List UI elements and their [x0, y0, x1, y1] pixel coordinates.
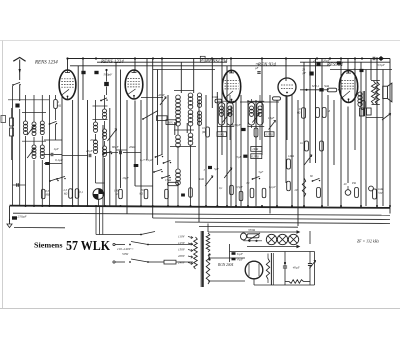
svg-text:110V: 110V: [178, 235, 186, 239]
svg-text:ZF = 132 kHz: ZF = 132 kHz: [357, 240, 379, 244]
svg-text:40µF: 40µF: [293, 266, 300, 270]
svg-text:20kΩ: 20kΩ: [90, 138, 97, 142]
svg-text:0,5MΩ: 0,5MΩ: [252, 156, 259, 159]
svg-text:8/10µF: 8/10µF: [232, 123, 241, 127]
svg-text:200V: 200V: [178, 254, 186, 258]
svg-text:RENS 1234: RENS 1234: [34, 61, 58, 66]
svg-text:µF: µF: [303, 71, 307, 75]
svg-text:40µF: 40µF: [158, 93, 165, 97]
svg-text:10kΩ: 10kΩ: [212, 96, 218, 99]
svg-text:REG: REG: [167, 121, 175, 125]
svg-text:250µF: 250µF: [18, 215, 28, 219]
svg-text:150V: 150V: [178, 248, 186, 252]
svg-text:M: M: [327, 109, 331, 113]
svg-text:6 µF: 6 µF: [237, 252, 243, 256]
svg-text:0,5MΩ: 0,5MΩ: [266, 133, 273, 136]
svg-text:26µF: 26µF: [123, 176, 130, 180]
svg-text:10kΩ: 10kΩ: [218, 133, 224, 136]
svg-text:Siemens: Siemens: [34, 242, 63, 250]
svg-text:110–240V∼: 110–240V∼: [117, 247, 134, 251]
svg-text:RENS 1224: RENS 1224: [100, 60, 124, 65]
svg-text:5µF: 5µF: [214, 167, 219, 171]
svg-text:kΩ: kΩ: [64, 192, 67, 196]
svg-text:1kΩ: 1kΩ: [199, 177, 204, 181]
svg-text:RGN 2004: RGN 2004: [217, 263, 233, 267]
svg-text:1MΩ: 1MΩ: [252, 147, 258, 151]
svg-text:MΩ: MΩ: [45, 193, 51, 197]
svg-text:0,1: 0,1: [80, 190, 84, 194]
svg-text:10µF: 10µF: [268, 116, 275, 120]
svg-text:0,1µF: 0,1µF: [269, 186, 276, 189]
svg-text:20kΩ: 20kΩ: [129, 145, 136, 149]
svg-text:kΩ: kΩ: [140, 192, 143, 196]
svg-text:5µF: 5µF: [259, 171, 264, 174]
svg-text:µF: µF: [255, 66, 259, 70]
svg-text:350Ω: 350Ω: [248, 228, 256, 232]
svg-text:4 µF: 4 µF: [237, 258, 243, 262]
svg-text:125V: 125V: [178, 241, 186, 245]
svg-text:(M): (M): [202, 131, 206, 134]
svg-text:240V: 240V: [178, 261, 186, 265]
svg-text:15kΩ: 15kΩ: [165, 178, 171, 182]
svg-text:1MΩ: 1MΩ: [288, 154, 294, 158]
svg-text:PΩ: PΩ: [351, 181, 356, 185]
svg-text:Ω: Ω: [116, 192, 118, 196]
svg-text:5µF: 5µF: [237, 155, 242, 159]
svg-text:57 WLK: 57 WLK: [66, 238, 111, 253]
svg-text:1µF: 1µF: [54, 147, 59, 151]
svg-text:RENS1234: RENS1234: [205, 60, 228, 65]
svg-text:80µF: 80µF: [112, 145, 119, 149]
svg-text:20µF: 20µF: [323, 59, 330, 63]
svg-text:REN 924: REN 924: [257, 63, 276, 68]
svg-text:20µF: 20µF: [86, 149, 93, 153]
svg-text:5kΩ: 5kΩ: [324, 84, 330, 88]
svg-text:R: R: [200, 57, 204, 62]
svg-text:500pF: 500pF: [104, 73, 114, 77]
svg-text:0,5µF: 0,5µF: [236, 186, 243, 189]
svg-text:½W: ½W: [378, 191, 383, 195]
svg-text:kΩ: kΩ: [297, 111, 300, 115]
svg-text:0,1: 0,1: [219, 187, 223, 190]
